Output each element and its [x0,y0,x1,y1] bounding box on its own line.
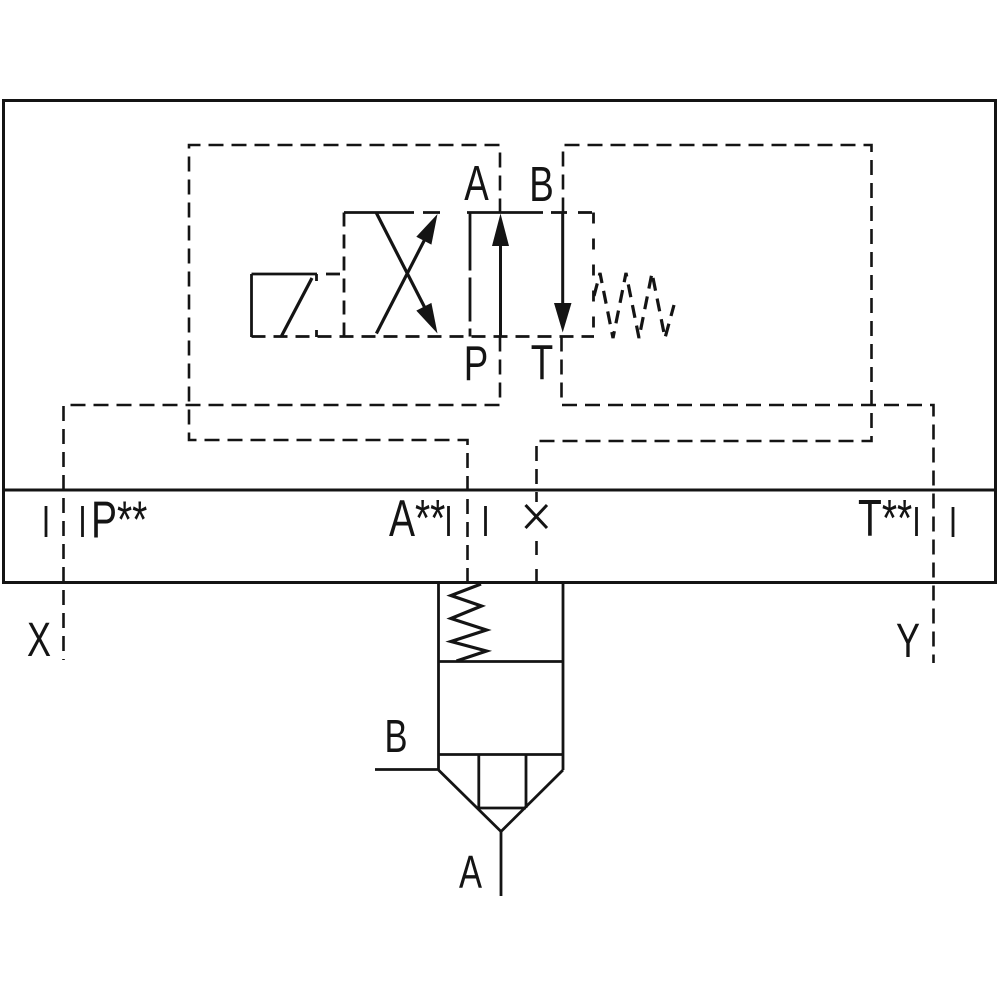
svg-text:A: A [459,846,483,898]
svg-text:T**: T** [858,488,912,547]
svg-text:X: X [27,613,51,666]
svg-text:A: A [464,157,489,211]
svg-text:P: P [464,337,489,391]
svg-text:B: B [529,158,554,212]
svg-text:T: T [531,336,553,390]
svg-text:P**: P** [91,490,147,549]
svg-text:A**: A** [389,488,445,547]
svg-text:Y: Y [896,614,920,667]
svg-text:B: B [384,710,407,762]
